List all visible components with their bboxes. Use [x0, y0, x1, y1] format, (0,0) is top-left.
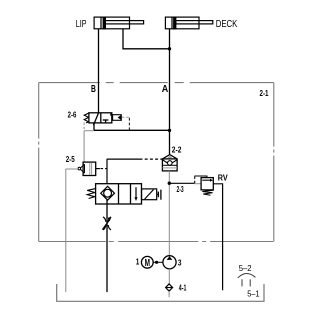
wire 2-6 bottom port to node on A line [93, 123, 95, 130]
cylinder LIP [94, 17, 144, 29]
cylinder DECK [165, 17, 212, 29]
pump 3 [163, 256, 176, 269]
valve 2-6 body [89, 113, 112, 126]
filter 4-1 [166, 284, 173, 291]
svg-text:2-2: 2-2 [172, 145, 182, 154]
svg-text:M: M [145, 258, 150, 269]
wire RV outlet to tank [213, 184, 222, 290]
svg-text:2-1: 2-1 [260, 89, 269, 98]
tank 5-1 [57, 284, 264, 301]
wire 2-5 left port to tank [66, 168, 78, 170]
wire filter suction tail [168, 291, 170, 297]
main lowering valve body [96, 184, 142, 204]
breather 5-2 [238, 273, 256, 277]
main valve solenoid [142, 189, 157, 200]
throttle valve (adjustable restrictor) [103, 217, 106, 222]
electric motor 1 [141, 256, 153, 268]
valve 2-5 cone and ball [80, 164, 85, 173]
svg-text:RV: RV [218, 173, 228, 182]
main valve flow arrow (down) [135, 187, 137, 198]
valve 2-5 body [83, 162, 96, 175]
main valve check (diamond with ball) [101, 186, 115, 200]
shaft coupling [153, 261, 163, 263]
wire main valve bottom line to tank [106, 200, 108, 292]
valve 2-6 spring [84, 113, 89, 123]
relief valve RV 2-3 body [201, 178, 213, 190]
node junction 2-6 output / A line [168, 129, 171, 132]
wire A line (DECK cap port down to check valve 2-2) [169, 29, 171, 155]
relief valve spring [202, 190, 213, 195]
svg-text:DECK: DECK [216, 19, 238, 30]
svg-text:2-3: 2-3 [177, 185, 185, 194]
wire RV pilot (dashed) [194, 177, 196, 184]
wire LIP rod port to node at A line [123, 29, 170, 49]
wire RV inlet [169, 182, 194, 184]
wire 2-6 spring drain (dashed gray) [83, 123, 85, 130]
svg-text:1: 1 [136, 258, 140, 267]
main lowering valve spring [87, 189, 95, 199]
valve 2-6 solenoid [113, 115, 122, 121]
svg-text:A: A [162, 84, 169, 95]
power unit boundary box 2-1 (chain line) [39, 83, 274, 242]
wire B line (LIP cap port down to valve 2-6) [98, 29, 100, 113]
svg-text:2-5: 2-5 [66, 155, 75, 164]
wire pilot to 2-2 (solid then dashed) [107, 158, 140, 160]
wire pump suction to filter (gray) [168, 269, 170, 284]
wire pilot of 2-6 (dashed) [122, 116, 130, 118]
svg-text:B: B [91, 84, 96, 95]
check valve 2-2 roof [162, 155, 177, 159]
check valve 2-2 body [162, 159, 177, 171]
svg-text:2-6: 2-6 [68, 110, 77, 119]
svg-text:5–1: 5–1 [247, 290, 260, 299]
svg-text:3: 3 [178, 258, 182, 267]
wire main valve top line [106, 159, 108, 187]
svg-text:LIP: LIP [76, 19, 87, 30]
svg-text:4-1: 4-1 [179, 283, 187, 292]
wire 2-5 right pilot stub (dashed) [96, 168, 100, 170]
node junction RV branch [168, 182, 171, 185]
svg-text:5–2: 5–2 [239, 264, 252, 273]
wire check valve 2-2 outlet down to pump (gray) [168, 171, 170, 256]
node junction LIP rod / DECK line [168, 47, 171, 50]
